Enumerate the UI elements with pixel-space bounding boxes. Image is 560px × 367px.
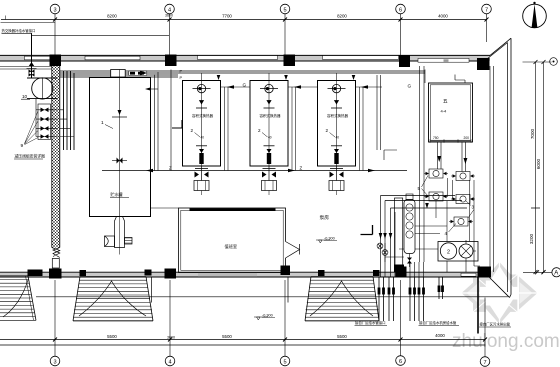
- stair S3: [305, 277, 379, 321]
- riser pipes right of T2: [225, 87, 229, 171]
- svg-text:3: 3: [53, 359, 56, 365]
- riser pipes right of T3: [292, 87, 296, 171]
- svg-text:zhulong.com: zhulong.com: [452, 331, 560, 352]
- elbow pipe right of tanks: [377, 70, 465, 161]
- tank T1 valve: [112, 158, 127, 164]
- column C5 bottom: [478, 267, 492, 278]
- elevation mark -0.300 a: [316, 236, 337, 243]
- column C4 bottom: [396, 267, 407, 278]
- right dim label bubble: [550, 58, 558, 66]
- svg-text:泵房: 泵房: [320, 214, 330, 221]
- grid bubble 3 bottom: [50, 356, 60, 366]
- svg-text:减压阀组安装详图: 减压阀组安装详图: [15, 154, 46, 159]
- grid line 7 bottom: [484, 298, 486, 358]
- svg-text:4: 4: [168, 359, 171, 365]
- pump base unit: [438, 242, 478, 262]
- window W1b top band: [85, 56, 140, 60]
- stair1 side wall block: [28, 270, 43, 277]
- arrow between T3-T4: [294, 85, 301, 89]
- tank T2: [183, 73, 221, 166]
- corner bracket left: [172, 120, 182, 128]
- svg-text:5500: 5500: [222, 334, 232, 339]
- svg-text:2: 2: [447, 249, 450, 255]
- grid line 3 top: [54, 14, 56, 61]
- column C3 bottom: [281, 266, 291, 276]
- column C1 top: [50, 55, 62, 67]
- tank T1 centerline: [119, 70, 121, 217]
- column C4 top: [399, 56, 410, 68]
- riser pipes right of T4: [360, 87, 364, 171]
- tick marks top: [53, 18, 489, 22]
- svg-text:热交换器补给水管接口: 热交换器补给水管接口: [2, 28, 36, 33]
- arrows on mid-right pipes: [379, 233, 393, 239]
- tank T1: [90, 78, 151, 217]
- pipe riser bundle B: [410, 277, 424, 321]
- pump unit PA5: [449, 217, 473, 226]
- svg-text:A: A: [554, 271, 558, 277]
- label 3 with leaders: [466, 201, 475, 218]
- flow arrow on bundle: [140, 71, 147, 76]
- bottom-right corner diagonal: [490, 278, 512, 298]
- stair2 right flank block: [145, 270, 152, 276]
- PRV valve 1: [36, 108, 58, 113]
- outer wall top-right diagonal: [490, 38, 511, 55]
- svg-text:贮水罐: 贮水罐: [111, 191, 123, 197]
- elevation mark -0.300 b: [254, 313, 275, 320]
- label PRV group text: [14, 154, 45, 160]
- bundle A label: [355, 320, 388, 325]
- arrow left at x156: [145, 87, 151, 91]
- arrow after T4: [361, 85, 368, 89]
- svg-text:7700: 7700: [222, 14, 232, 19]
- grid line 3 bottom: [54, 280, 56, 356]
- stair S1: [0, 276, 36, 321]
- svg-text:-0.300: -0.300: [324, 236, 335, 240]
- column C2 bottom: [165, 269, 177, 279]
- leader wire from label: [31, 33, 33, 57]
- grid line 5 top: [284, 14, 286, 55]
- main pipe Z horizontal: [102, 170, 407, 172]
- label pipe connection top-left: [2, 28, 170, 57]
- right dim extension top: [523, 61, 552, 63]
- svg-text:10: 10: [22, 94, 28, 99]
- pump unit PA1: [424, 169, 448, 178]
- right dim vertical line2: [543, 62, 545, 272]
- wire from tank T1 to duty room: [150, 207, 178, 209]
- window W4 top band right room: [418, 58, 469, 62]
- right room west pipes: [420, 66, 425, 262]
- grid line 5 bottom: [284, 280, 286, 356]
- tank T4: [318, 73, 356, 166]
- grid line 4 bottom: [169, 280, 171, 356]
- window W2 top band: [198, 56, 278, 60]
- pump circle 2: [440, 243, 456, 259]
- bottom ticks: [53, 338, 487, 342]
- svg-text:5: 5: [283, 359, 286, 365]
- valve on left riser: [27, 69, 37, 77]
- svg-text:4: 4: [168, 7, 171, 13]
- PRV valve 2: [36, 117, 58, 122]
- pump under T4: [329, 166, 344, 195]
- pump under T1: [105, 217, 133, 255]
- pump unit PA3: [424, 192, 448, 201]
- svg-text:200: 200: [464, 136, 470, 140]
- column C3 top: [284, 55, 296, 67]
- interior pipe bundle mid-right: [381, 196, 468, 278]
- window W5 bottom band: [461, 273, 476, 276]
- window W1 top band: [25, 56, 51, 60]
- svg-text:8200: 8200: [107, 14, 117, 19]
- bundle C label: [479, 322, 511, 328]
- dosing cylinder tank: [404, 194, 415, 267]
- compass north: [523, 2, 547, 28]
- grid bubble A: [552, 268, 560, 277]
- walkway edge line: [36, 296, 508, 298]
- label 1: [101, 120, 113, 129]
- pump under T3: [262, 166, 277, 195]
- bundle B label: [419, 320, 460, 325]
- arrow down right room left: [425, 203, 429, 209]
- svg-text:5500: 5500: [337, 334, 347, 339]
- grid bubble 7 top: [482, 4, 492, 14]
- grid line 6 top: [400, 14, 402, 55]
- stair S2: [73, 277, 153, 321]
- dim start tick: [1, 16, 56, 23]
- vertical chase vessel: [394, 198, 404, 273]
- PRV valve 4: [36, 134, 58, 139]
- label 10: [21, 94, 30, 99]
- tank5 sub dims: [430, 136, 471, 143]
- pump circle cross: [459, 240, 476, 258]
- wire horizontal y35.5: [32, 35, 170, 37]
- right dim vertical line1: [535, 62, 537, 272]
- water meter circle: [27, 78, 58, 99]
- pipe fixture on bundle: [111, 70, 147, 78]
- svg-text:5: 5: [283, 7, 286, 13]
- duty room door: [284, 242, 300, 259]
- grid bubble 7 bottom: [480, 357, 490, 367]
- grid bubble 5 top: [280, 4, 290, 14]
- arrow on Z pipe 2: [368, 169, 375, 173]
- inter-tank arrow pipes: [220, 86, 382, 88]
- bottom dimension chain line2: [0, 344, 486, 346]
- tank T1 tick: [112, 116, 127, 118]
- svg-text:5500: 5500: [107, 334, 117, 339]
- top dimension line: [1, 19, 487, 21]
- grid line A: [523, 271, 552, 273]
- pump under T2: [194, 166, 209, 195]
- arrow on Z pipe 3: [146, 169, 153, 173]
- svg-text:五: 五: [443, 99, 448, 104]
- duty room outer wall: [179, 208, 286, 273]
- valve circles on mid pipes: [377, 243, 404, 262]
- svg-text:7: 7: [483, 360, 486, 366]
- grid line 7 top: [486, 14, 488, 42]
- svg-text:值班室: 值班室: [225, 243, 238, 250]
- bundle B valves: [409, 288, 425, 295]
- wire circle to PRV: [35, 99, 37, 137]
- stair3 right flank block: [373, 270, 380, 276]
- column C5 top right: [477, 58, 490, 70]
- wires left of wall: [0, 67, 52, 70]
- arrow between T2-T3: [227, 85, 234, 89]
- tank 5: [429, 83, 473, 142]
- bundle A valves: [378, 288, 395, 295]
- grid bubble 6 top: [396, 4, 406, 14]
- svg-text:8200: 8200: [337, 14, 347, 19]
- pipes right room verticals: [436, 178, 474, 242]
- window W4 mullion: [444, 59, 449, 62]
- label 5 with leaders: [418, 176, 429, 197]
- PRV valve 3: [36, 126, 58, 131]
- stair S3 direction arrow: [310, 281, 373, 316]
- svg-text:4000: 4000: [438, 14, 448, 19]
- svg-text:3600: 3600: [165, 14, 173, 18]
- svg-text:4-4: 4-4: [441, 109, 448, 114]
- svg-text:接自厂区污水排出管: 接自厂区污水排出管: [480, 322, 511, 327]
- svg-text:6: 6: [399, 359, 402, 365]
- pump unit PA2: [451, 172, 475, 181]
- tank T1 check arrow: [118, 110, 122, 115]
- svg-text:-0.300: -0.300: [262, 313, 273, 317]
- grid bubble 6 bottom: [396, 356, 406, 366]
- pipe pair below pump base: [438, 277, 444, 299]
- grid bubble 4 bottom: [165, 356, 175, 366]
- door threshold gray: [198, 273, 257, 277]
- svg-text:3200: 3200: [529, 233, 534, 244]
- svg-text:7000: 7000: [530, 128, 535, 139]
- pipes bottom right room: [399, 226, 480, 277]
- svg-text:3600: 3600: [167, 336, 175, 340]
- svg-text:4000: 4000: [435, 333, 445, 338]
- drop arrows into tanks: [217, 75, 356, 80]
- label 9 with leaders: [21, 111, 39, 149]
- svg-text:Z: Z: [169, 166, 172, 171]
- right dim ticks: [531, 60, 546, 274]
- right outer wall: [510, 38, 512, 294]
- stair2 left flank block: [80, 270, 87, 276]
- bottom wall band: [0, 272, 490, 277]
- svg-text:Z: Z: [300, 166, 303, 171]
- arrows below tank5: [437, 156, 467, 164]
- grid A ticks: [535, 270, 546, 274]
- corner bracket right: [361, 225, 373, 235]
- bottom dimension chain line1: [0, 339, 486, 341]
- wall stub below break: [52, 259, 59, 269]
- svg-text:3: 3: [53, 7, 56, 13]
- watermark logo: [462, 262, 538, 324]
- entrance platform: [152, 277, 289, 303]
- inner wall top-right diagonal: [485, 43, 508, 62]
- right inner wall: [507, 43, 509, 293]
- pipe riser C from corner column: [477, 278, 479, 334]
- svg-text:G: G: [243, 83, 247, 88]
- svg-text:750: 750: [433, 136, 439, 140]
- svg-text:接自厂区给水管接口: 接自厂区给水管接口: [355, 320, 386, 325]
- svg-text:1: 1: [101, 120, 104, 126]
- window W3 top band: [323, 56, 399, 60]
- arrow on Z pipe 1: [288, 169, 295, 173]
- svg-text:6: 6: [399, 7, 402, 13]
- stair3 left flank block: [318, 270, 325, 276]
- column C2 top: [165, 55, 177, 67]
- svg-text:接自厂区给水机房给水管: 接自厂区给水机房给水管: [419, 320, 457, 325]
- grid bubble 4 top: [165, 4, 175, 14]
- inter pipe risers T1-T2: [150, 70, 171, 171]
- grid bubble 5 bottom: [280, 356, 290, 366]
- check valve on left riser: [29, 62, 34, 66]
- pipe riser bundle A: [379, 277, 394, 321]
- right room west wall: [490, 66, 494, 272]
- wall break zigzag: [52, 248, 60, 258]
- stair S2 direction arrow: [79, 281, 146, 316]
- left wall hatched: [52, 61, 60, 268]
- svg-text:6000: 6000: [536, 158, 541, 169]
- tank T1 text: [110, 191, 129, 198]
- svg-text:G: G: [408, 84, 412, 89]
- pump unit PA4: [451, 195, 475, 204]
- top pipe bundle: [0, 67, 425, 78]
- pipes below tank5: [438, 142, 466, 172]
- left exterior pipe riser: [31, 33, 33, 78]
- grid line 4 top: [169, 14, 171, 55]
- pressure reducing valve group box: [38, 104, 51, 140]
- label 4 with leader: [445, 224, 457, 237]
- column C1 bottom: [49, 269, 62, 279]
- duty room roof beam thick: [190, 208, 276, 211]
- top wall band: [0, 55, 490, 61]
- duty room inner wall: [181, 210, 283, 270]
- tank T3: [250, 73, 288, 166]
- svg-text:7: 7: [485, 7, 488, 13]
- svg-text:9: 9: [21, 143, 24, 149]
- riser pipes left of tank T1: [60, 71, 74, 150]
- grid line 6 bottom: [400, 280, 402, 356]
- grid bubble 3 top: [50, 4, 60, 14]
